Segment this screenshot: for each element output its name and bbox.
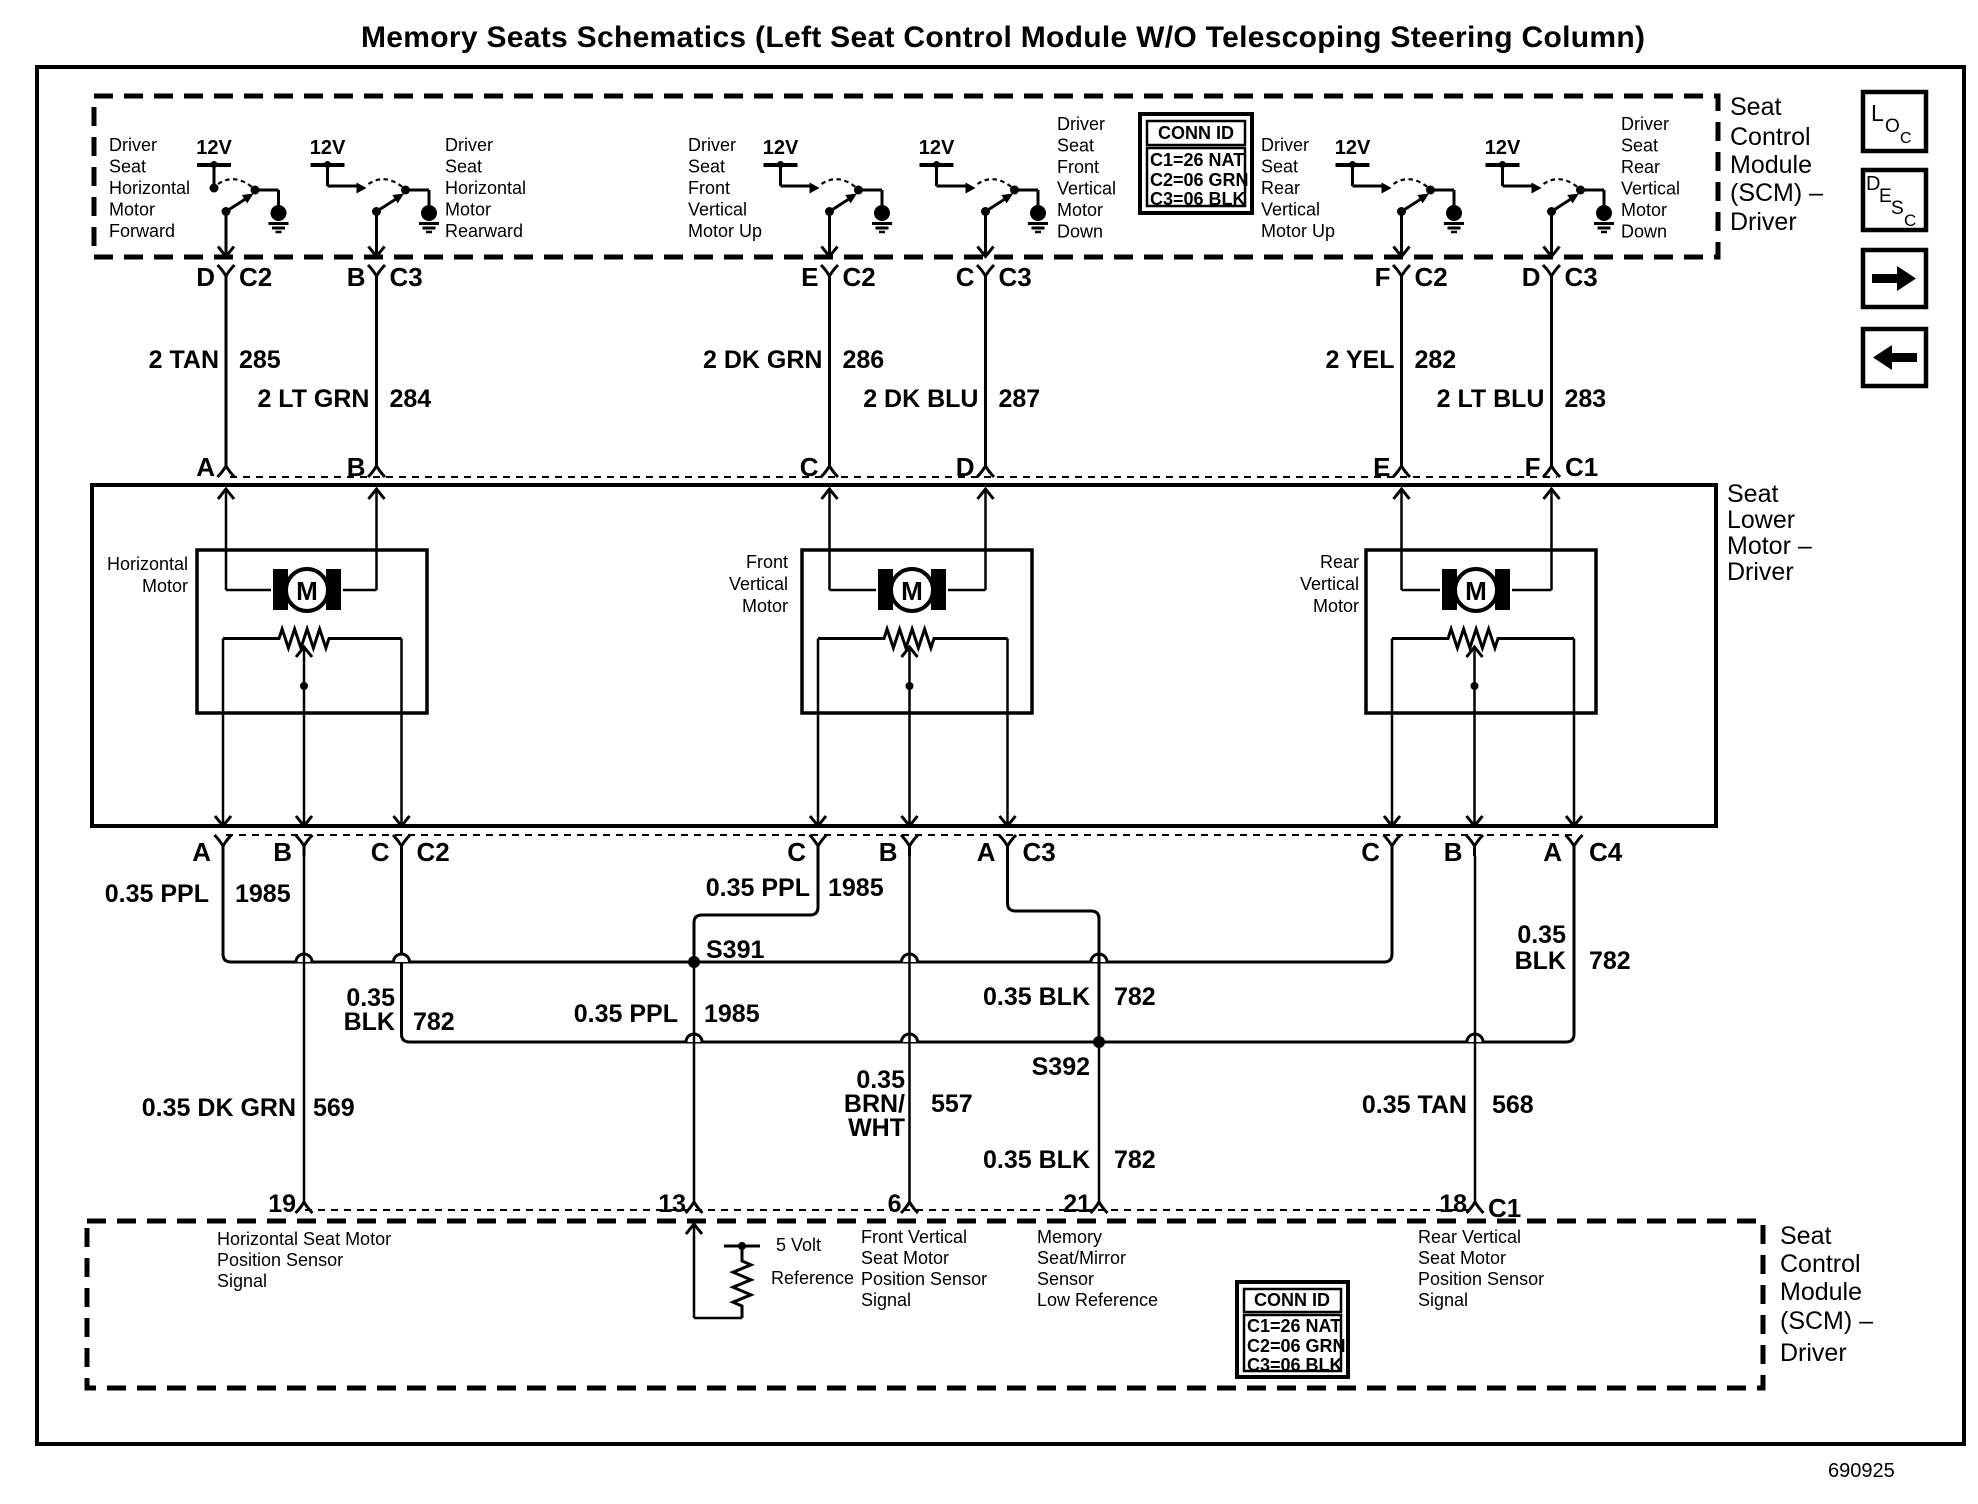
wire 782 (0.35 BLK) horizontal run from C2-C to C4-A via S392	[344, 856, 1631, 1042]
svg-text:Seat: Seat	[1057, 136, 1094, 156]
label Front Vertical Seat Motor Position Sensor Signal	[861, 1227, 987, 1310]
svg-text:B: B	[879, 837, 898, 867]
5 Volt Reference pull-up inside SCM	[686, 1224, 854, 1318]
svg-text:568: 568	[1492, 1091, 1534, 1119]
svg-text:287: 287	[999, 385, 1041, 413]
svg-text:M: M	[1465, 576, 1487, 606]
svg-text:282: 282	[1415, 346, 1457, 374]
label Rear Vertical Motor	[1300, 552, 1359, 616]
connector C1 pin D	[956, 452, 994, 482]
svg-text:C1=26 NAT: C1=26 NAT	[1247, 1316, 1341, 1336]
label Horizontal Seat Motor Position Sensor Signal	[217, 1229, 391, 1291]
svg-text:690925: 690925	[1828, 1460, 1895, 1482]
svg-text:Memory: Memory	[1037, 1227, 1102, 1247]
wire 287 (2 DK BLU) from SCM to Seat Lower Motor C1	[863, 287, 1040, 456]
svg-text:Vertical: Vertical	[688, 200, 747, 220]
svg-text:CONN ID: CONN ID	[1158, 123, 1234, 143]
connector C4 pin A	[1543, 835, 1582, 867]
connector pin D (C2) at SCM top	[196, 262, 272, 292]
svg-text:Front: Front	[1057, 157, 1099, 177]
svg-text:O: O	[1885, 116, 1900, 137]
svg-text:18: 18	[1439, 1190, 1467, 1218]
svg-text:13: 13	[658, 1190, 686, 1218]
connector row dashed line below motor box	[226, 834, 1577, 836]
svg-text:C3: C3	[1565, 262, 1598, 292]
svg-text:5 Volt: 5 Volt	[776, 1235, 821, 1255]
motor M (Front Vertical Motor)	[878, 569, 946, 611]
svg-text:Motor: Motor	[1313, 596, 1359, 616]
wire 284 (2 LT GRN) from SCM to Seat Lower Motor C1	[257, 287, 431, 456]
SCM pin 19	[268, 1190, 312, 1218]
connector C1 pin E	[1373, 452, 1410, 482]
svg-text:557: 557	[931, 1090, 973, 1118]
svg-text:Motor Up: Motor Up	[1261, 221, 1335, 241]
wire 285 (2 TAN) from SCM to Seat Lower Motor C1	[149, 287, 281, 456]
svg-text:C3: C3	[1023, 837, 1056, 867]
LOC button	[1863, 92, 1926, 151]
switch SW5: Driver Seat Rear Vertical Motor Up switch	[1335, 137, 1454, 257]
svg-text:Horizontal: Horizontal	[445, 178, 526, 198]
label C4	[1589, 837, 1623, 867]
switch SW1: Driver Seat Horizontal Motor Forward switch	[196, 137, 278, 257]
wiper arrow exit (Horizontal Motor)	[296, 816, 312, 826]
wire hop: 1985 run over 569 wire	[296, 954, 312, 962]
switch SW6: Driver Seat Rear Vertical Motor Down switch	[1485, 137, 1604, 257]
ground symbol for SW6	[1594, 205, 1614, 232]
svg-text:782: 782	[1589, 947, 1631, 975]
wire 568 (0.35 TAN) from C4-B to pin 18	[1362, 856, 1534, 1202]
left arrow button	[1863, 329, 1926, 386]
svg-text:Motor: Motor	[109, 200, 155, 220]
svg-text:0.35 TAN: 0.35 TAN	[1362, 1091, 1467, 1119]
svg-text:284: 284	[390, 385, 432, 413]
svg-text:C3: C3	[999, 262, 1032, 292]
label Seat Control Module (SCM) - Driver (bottom right)	[1780, 1222, 1873, 1367]
svg-text:0.35 BLK: 0.35 BLK	[983, 983, 1090, 1011]
svg-text:CONN ID: CONN ID	[1254, 1290, 1330, 1310]
Rear Vertical Motor assembly box	[1366, 550, 1596, 713]
svg-text:782: 782	[1114, 983, 1156, 1011]
connector C2 pin A	[192, 835, 231, 867]
svg-text:Motor: Motor	[445, 200, 491, 220]
svg-text:12V: 12V	[1485, 137, 1521, 159]
wiper arrow exit (Front Vertical Motor)	[902, 816, 918, 826]
svg-text:C3=06 BLK: C3=06 BLK	[1150, 189, 1246, 209]
svg-text:2 DK GRN: 2 DK GRN	[703, 346, 822, 374]
svg-text:Seat Motor: Seat Motor	[1418, 1248, 1506, 1268]
label Rear Vertical Seat Motor Position Sensor Signal	[1418, 1227, 1544, 1310]
svg-text:B: B	[1444, 837, 1463, 867]
SCM bottom connector dashed line	[305, 1209, 1475, 1211]
svg-text:C: C	[371, 837, 390, 867]
svg-text:C2: C2	[843, 262, 876, 292]
svg-text:C1=26 NAT: C1=26 NAT	[1150, 150, 1244, 170]
svg-text:Driver: Driver	[1730, 208, 1797, 236]
connector C1 pin A	[196, 452, 234, 482]
position sensor resistor (Horizontal Motor)	[223, 629, 402, 648]
svg-text:283: 283	[1565, 385, 1607, 413]
svg-text:Position Sensor: Position Sensor	[1418, 1269, 1544, 1289]
svg-text:Signal: Signal	[217, 1271, 267, 1291]
connector pin B (C3) at SCM top	[347, 262, 423, 292]
svg-text:12V: 12V	[1335, 137, 1371, 159]
svg-text:C3=06 BLK: C3=06 BLK	[1247, 1355, 1343, 1375]
svg-text:E: E	[801, 262, 818, 292]
connector pin C (C3) at SCM top	[956, 262, 1032, 292]
svg-text:C: C	[956, 262, 975, 292]
svg-text:Vertical: Vertical	[1261, 200, 1320, 220]
svg-text:E: E	[1373, 452, 1390, 482]
sensor left lead wire (Front Vertical Motor)	[810, 639, 826, 827]
label Front Vertical Motor	[729, 552, 788, 616]
connector C1 pin B	[347, 452, 385, 482]
svg-text:0.35: 0.35	[1517, 921, 1566, 949]
SCM pin 21	[1063, 1190, 1107, 1218]
svg-text:Driver: Driver	[1727, 558, 1794, 586]
svg-text:C2: C2	[239, 262, 272, 292]
label Driver Seat Rear Vertical Motor Down	[1621, 114, 1680, 242]
svg-text:2 YEL: 2 YEL	[1325, 346, 1394, 374]
svg-text:782: 782	[413, 1008, 455, 1036]
svg-text:Vertical: Vertical	[1057, 179, 1116, 199]
svg-text:Horizontal: Horizontal	[109, 178, 190, 198]
connector C2 pin C	[371, 835, 410, 867]
CONN ID table (top)	[1140, 114, 1252, 213]
wire hop: 782 run over 557 wire	[902, 1034, 918, 1042]
svg-text:Rear: Rear	[1261, 178, 1300, 198]
switch SW4: Driver Seat Front Vertical Motor Down switch	[919, 137, 1038, 257]
svg-text:(SCM) –: (SCM) –	[1780, 1307, 1873, 1335]
svg-text:C2: C2	[1415, 262, 1448, 292]
wire hop: 782 run over 568 wire	[1467, 1034, 1483, 1042]
splice S391	[688, 936, 764, 968]
svg-text:M: M	[296, 576, 318, 606]
svg-text:Driver: Driver	[688, 135, 736, 155]
svg-text:Seat: Seat	[445, 157, 482, 177]
svg-text:C: C	[1900, 130, 1912, 147]
switch SW3: Driver Seat Front Vertical Motor Up switch	[763, 137, 882, 257]
right arrow button	[1863, 250, 1926, 307]
svg-text:Seat: Seat	[1730, 93, 1781, 121]
svg-text:Seat: Seat	[1621, 136, 1658, 156]
svg-text:C: C	[1361, 837, 1380, 867]
ground symbol for SW3	[872, 205, 892, 232]
connector C4 pin B	[1444, 835, 1483, 867]
wire into Horizontal Motor right terminal	[343, 489, 385, 590]
connector pin F (C2) at SCM top	[1375, 262, 1448, 292]
svg-text:Module: Module	[1780, 1278, 1862, 1306]
svg-text:Seat Motor: Seat Motor	[861, 1248, 949, 1268]
svg-text:Low Reference: Low Reference	[1037, 1290, 1158, 1310]
wire into Front Vertical Motor left terminal	[822, 489, 877, 590]
svg-text:Motor: Motor	[1621, 200, 1667, 220]
svg-text:B: B	[347, 262, 366, 292]
svg-text:A: A	[192, 837, 211, 867]
svg-text:Seat/Mirror: Seat/Mirror	[1037, 1248, 1126, 1268]
wiper arrow exit (Rear Vertical Motor)	[1467, 816, 1483, 826]
svg-text:Motor Up: Motor Up	[688, 221, 762, 241]
svg-text:C2=06 GRN: C2=06 GRN	[1150, 170, 1249, 190]
svg-text:Memory Seats Schematics (Left: Memory Seats Schematics (Left Seat Contr…	[361, 21, 1645, 54]
svg-text:19: 19	[268, 1190, 296, 1218]
wire into Rear Vertical Motor right terminal	[1512, 489, 1560, 590]
svg-text:Seat: Seat	[109, 157, 146, 177]
svg-text:Driver: Driver	[1621, 114, 1669, 134]
label Horizontal Motor	[107, 554, 188, 596]
svg-text:M: M	[901, 576, 923, 606]
connector C1 pin F	[1525, 452, 1560, 482]
svg-text:12V: 12V	[763, 137, 799, 159]
svg-text:Control: Control	[1780, 1250, 1861, 1278]
svg-text:Signal: Signal	[1418, 1290, 1468, 1310]
svg-text:Module: Module	[1730, 151, 1812, 179]
svg-text:S391: S391	[706, 936, 764, 964]
CONN ID table (bottom)	[1237, 1282, 1348, 1377]
ground symbol for SW5	[1444, 205, 1464, 232]
sensor right lead wire (Front Vertical Motor)	[1000, 639, 1016, 827]
svg-text:D: D	[1522, 262, 1541, 292]
svg-text:2 TAN: 2 TAN	[149, 346, 219, 374]
svg-text:A: A	[196, 452, 215, 482]
position sensor resistor (Rear Vertical Motor)	[1392, 629, 1574, 648]
label Seat Control Module (SCM) - Driver (top right)	[1730, 93, 1823, 236]
sensor right lead wire (Horizontal Motor)	[394, 639, 410, 827]
svg-text:Driver: Driver	[109, 135, 157, 155]
svg-text:0.35 BLK: 0.35 BLK	[983, 1146, 1090, 1174]
SCM pin 6	[888, 1190, 918, 1218]
svg-text:Lower: Lower	[1727, 506, 1795, 534]
svg-text:0.35 PPL: 0.35 PPL	[706, 874, 810, 902]
label Memory Seat/Mirror Sensor Low Reference	[1037, 1227, 1158, 1310]
svg-text:D: D	[196, 262, 215, 292]
svg-text:Rear: Rear	[1621, 157, 1660, 177]
svg-text:Front Vertical: Front Vertical	[861, 1227, 967, 1247]
label Seat Lower Motor - Driver	[1727, 480, 1812, 586]
svg-text:S392: S392	[1032, 1053, 1090, 1081]
ground symbol for SW4	[1028, 205, 1048, 232]
svg-text:Motor –: Motor –	[1727, 532, 1812, 560]
connector C3 pin A	[977, 835, 1016, 867]
label Driver Seat Front Vertical Motor Up	[688, 135, 762, 241]
svg-text:S: S	[1891, 198, 1904, 219]
svg-text:Reference: Reference	[771, 1268, 854, 1288]
label Driver Seat Rear Vertical Motor Up	[1261, 135, 1335, 241]
connector C1 dashed line	[230, 476, 1557, 478]
wire 1985 (0.35 PPL) horizontal run from C2-A to C4-C via S391	[105, 856, 1392, 962]
svg-text:0.35 DK GRN: 0.35 DK GRN	[142, 1094, 296, 1122]
label C3	[1023, 837, 1056, 867]
svg-text:F: F	[1375, 262, 1391, 292]
connector C2 pin B	[273, 835, 312, 867]
wire 286 (2 DK GRN) from SCM to Seat Lower Motor C1	[703, 287, 884, 456]
ground symbol for SW2	[419, 205, 439, 232]
svg-text:Down: Down	[1057, 222, 1103, 242]
sensor wiper (Front Vertical Motor)	[902, 647, 918, 826]
Seat Lower Motor - Driver box	[92, 485, 1716, 826]
wire into Front Vertical Motor right terminal	[948, 489, 994, 590]
SCM pin 13	[658, 1190, 702, 1218]
svg-text:B: B	[347, 452, 366, 482]
document number 690925	[1828, 1460, 1895, 1482]
wire 1985 (0.35 PPL) from S391 down to pin 13	[574, 962, 760, 1202]
wire hop: 1985 run over 557 wire	[902, 954, 918, 962]
wire 1985 (0.35 PPL) from C3-C down-left to S391	[694, 856, 884, 962]
svg-text:1985: 1985	[235, 880, 291, 908]
label Driver Seat Horizontal Motor Rearward	[445, 135, 526, 241]
svg-text:Vertical: Vertical	[729, 574, 788, 594]
wire into Rear Vertical Motor left terminal	[1394, 489, 1441, 590]
svg-text:12V: 12V	[919, 137, 955, 159]
svg-text:1985: 1985	[828, 874, 884, 902]
position sensor resistor (Front Vertical Motor)	[818, 629, 1008, 648]
label C2	[417, 837, 450, 867]
svg-text:C: C	[800, 452, 819, 482]
switch SW2: Driver Seat Horizontal Motor Rearward switch	[310, 137, 429, 257]
wire 569 (0.35 DK GRN) from C2-B to pin 19	[142, 856, 355, 1202]
svg-text:C1: C1	[1565, 452, 1598, 482]
wire into Horizontal Motor left terminal	[218, 489, 271, 590]
svg-text:Driver: Driver	[1057, 114, 1105, 134]
wire 782 vertical into S392	[1098, 950, 1101, 1042]
svg-text:782: 782	[1114, 1146, 1156, 1174]
svg-text:Vertical: Vertical	[1621, 179, 1680, 199]
svg-text:0.35 PPL: 0.35 PPL	[574, 1000, 678, 1028]
ground symbol for SW1	[269, 205, 289, 232]
Horizontal Motor assembly box	[197, 550, 427, 713]
connector C1 pin C	[800, 452, 838, 482]
svg-text:BLK: BLK	[344, 1008, 395, 1036]
svg-text:21: 21	[1063, 1190, 1091, 1218]
svg-text:Control: Control	[1730, 123, 1811, 151]
wire 283 (2 LT BLU) from SCM to Seat Lower Motor C1	[1437, 287, 1607, 456]
svg-text:Driver: Driver	[1261, 135, 1309, 155]
splice S392	[1032, 1036, 1105, 1081]
SCM pin 18	[1439, 1190, 1483, 1218]
svg-text:2 LT GRN: 2 LT GRN	[257, 385, 369, 413]
connector C4 pin C	[1361, 835, 1400, 867]
svg-text:Seat: Seat	[688, 157, 725, 177]
svg-text:Down: Down	[1621, 222, 1667, 242]
svg-text:12V: 12V	[196, 137, 232, 159]
label Driver Seat Horizontal Motor Forward	[109, 135, 190, 241]
svg-text:Signal: Signal	[861, 1290, 911, 1310]
connector pin D (C3) at SCM top	[1522, 262, 1598, 292]
svg-text:C2=06 GRN: C2=06 GRN	[1247, 1336, 1346, 1356]
wire hop: 782 run over 1985 vertical	[686, 1034, 702, 1042]
title	[361, 21, 1645, 54]
svg-text:0.35 PPL: 0.35 PPL	[105, 880, 209, 908]
svg-text:Seat: Seat	[1261, 157, 1298, 177]
svg-text:C: C	[787, 837, 806, 867]
svg-text:Seat: Seat	[1780, 1222, 1831, 1250]
svg-text:B: B	[273, 837, 292, 867]
motor M (Rear Vertical Motor)	[1442, 569, 1510, 611]
connector C3 pin B	[879, 835, 918, 867]
svg-text:Driver: Driver	[1780, 1339, 1847, 1367]
svg-text:286: 286	[843, 346, 885, 374]
Front Vertical Motor assembly box	[802, 550, 1032, 713]
wire 557 (0.35 BRN/WHT) from C3-B to pin 6	[844, 856, 973, 1202]
Seat Control Module (SCM) Driver box (bottom)	[87, 1221, 1763, 1388]
motor M (Horizontal Motor)	[273, 569, 341, 611]
svg-text:Front: Front	[688, 178, 730, 198]
sensor left lead wire (Horizontal Motor)	[215, 639, 231, 827]
svg-text:WHT: WHT	[848, 1114, 905, 1142]
svg-text:Position Sensor: Position Sensor	[861, 1269, 987, 1289]
svg-text:Driver: Driver	[445, 135, 493, 155]
svg-text:6: 6	[888, 1190, 902, 1218]
svg-text:Motor: Motor	[1057, 200, 1103, 220]
svg-text:285: 285	[239, 346, 281, 374]
svg-text:Motor: Motor	[742, 596, 788, 616]
svg-text:Rear: Rear	[1320, 552, 1359, 572]
DESC button	[1863, 170, 1926, 230]
svg-text:L: L	[1871, 100, 1884, 126]
sensor wiper (Horizontal Motor)	[296, 647, 312, 826]
svg-text:Rearward: Rearward	[445, 221, 523, 241]
wire 782 (0.35 BLK) from C3-A down-right toward S392	[983, 856, 1156, 1011]
svg-text:A: A	[1543, 837, 1562, 867]
svg-text:Seat: Seat	[1727, 480, 1778, 508]
svg-text:2 DK BLU: 2 DK BLU	[863, 385, 978, 413]
svg-text:Position Sensor: Position Sensor	[217, 1250, 343, 1270]
svg-text:Horizontal Seat Motor: Horizontal Seat Motor	[217, 1229, 391, 1249]
svg-text:E: E	[1879, 186, 1892, 207]
svg-text:2 LT BLU: 2 LT BLU	[1437, 385, 1545, 413]
wire 782 (0.35 BLK) from S392 down to pin 21	[983, 1042, 1156, 1202]
svg-text:BLK: BLK	[1515, 947, 1566, 975]
label Driver Seat Front Vertical Motor Down	[1057, 114, 1116, 242]
svg-text:A: A	[977, 837, 996, 867]
svg-text:Front: Front	[746, 552, 788, 572]
svg-text:C3: C3	[390, 262, 423, 292]
sensor left lead wire (Rear Vertical Motor)	[1384, 639, 1400, 827]
sensor right lead wire (Rear Vertical Motor)	[1566, 639, 1582, 827]
svg-text:Rear Vertical: Rear Vertical	[1418, 1227, 1521, 1247]
svg-text:C4: C4	[1589, 837, 1623, 867]
svg-text:569: 569	[313, 1094, 355, 1122]
wire hop: 1985 run over 782 wire	[394, 954, 410, 962]
svg-text:1985: 1985	[704, 1000, 760, 1028]
Seat Control Module (SCM) Driver box (top)	[94, 96, 1718, 257]
wire hop: 1985 run over 782 vertical	[1091, 954, 1107, 962]
svg-text:C2: C2	[417, 837, 450, 867]
label C1	[1565, 452, 1598, 482]
svg-text:D: D	[956, 452, 975, 482]
svg-text:(SCM) –: (SCM) –	[1730, 179, 1823, 207]
svg-text:12V: 12V	[310, 137, 346, 159]
svg-text:Sensor: Sensor	[1037, 1269, 1094, 1289]
connector C3 pin C	[787, 835, 826, 867]
wire 282 (2 YEL) from SCM to Seat Lower Motor C1	[1325, 287, 1456, 456]
connector pin E (C2) at SCM top	[801, 262, 876, 292]
label C1 (bottom)	[1488, 1193, 1521, 1223]
svg-text:Forward: Forward	[109, 221, 175, 241]
sensor wiper (Rear Vertical Motor)	[1467, 647, 1483, 826]
svg-text:F: F	[1525, 452, 1541, 482]
svg-text:Motor: Motor	[142, 576, 188, 596]
svg-text:Vertical: Vertical	[1300, 574, 1359, 594]
svg-text:C: C	[1904, 211, 1916, 230]
svg-text:Horizontal: Horizontal	[107, 554, 188, 574]
